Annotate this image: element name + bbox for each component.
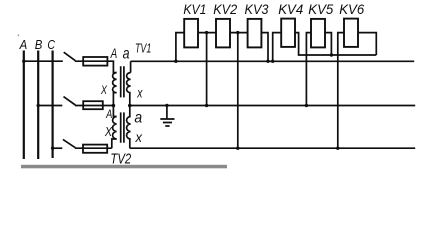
svg-text:KV5: KV5 — [308, 2, 333, 17]
svg-text:A: A — [110, 46, 117, 61]
svg-text:X: X — [100, 83, 107, 97]
svg-text:a: a — [134, 110, 142, 127]
svg-text:x: x — [135, 130, 144, 145]
svg-text:a: a — [123, 46, 130, 63]
svg-text:A: A — [19, 37, 27, 52]
svg-text:KV1: KV1 — [183, 2, 206, 17]
svg-text:TV2: TV2 — [110, 151, 131, 167]
svg-text:B: B — [35, 37, 43, 52]
svg-text:X: X — [104, 124, 113, 139]
svg-text:A: A — [105, 109, 112, 121]
svg-text:TV1: TV1 — [135, 40, 151, 55]
svg-text:KV3: KV3 — [245, 2, 269, 17]
svg-text:C: C — [47, 37, 55, 52]
svg-text:KV4: KV4 — [278, 2, 303, 17]
svg-text:KV6: KV6 — [339, 2, 364, 17]
svg-text:x: x — [136, 84, 143, 100]
svg-text:KV2: KV2 — [213, 2, 237, 17]
